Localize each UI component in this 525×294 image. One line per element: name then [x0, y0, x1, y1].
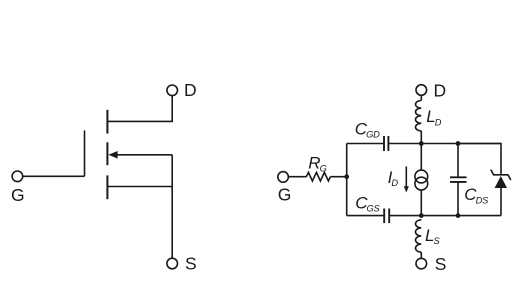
inductor LS [415, 220, 421, 252]
wire inductor LS to S [420, 252, 422, 258]
channel bar drain segment [106, 110, 108, 134]
svg-text:G: G [278, 185, 292, 205]
svg-text:S: S [435, 254, 447, 274]
svg-text:S: S [185, 254, 197, 274]
node source bottom [419, 213, 424, 218]
wire current source to source node [420, 190, 422, 216]
terminal G circle (model) [278, 172, 289, 183]
MOSFET Q1 source terminal circle [167, 258, 178, 269]
resistor RG [306, 172, 330, 181]
wire gate lead [22, 175, 84, 177]
svg-text:G: G [11, 185, 25, 205]
wire top rail right [389, 143, 501, 145]
terminal S circle (model) [416, 258, 427, 269]
wire drain node to current source [420, 144, 422, 171]
wire top rail left [347, 143, 384, 145]
wire CDS top [457, 144, 459, 178]
capacitor CDS [450, 176, 467, 178]
MOSFET Q1 drain terminal circle [167, 85, 178, 96]
zener diode body [495, 176, 507, 188]
wire drain [107, 95, 172, 121]
body arrow [117, 154, 172, 156]
MOSFET Q1 gate terminal circle [12, 171, 23, 182]
wire right branch top [458, 144, 501, 175]
wire D to inductor [420, 95, 422, 100]
channel bar body segment [106, 142, 108, 165]
node gate [344, 174, 349, 179]
wire bottom rail right [389, 215, 501, 217]
wire CDS bottom [457, 182, 459, 216]
node drain top [419, 141, 424, 146]
wire body to source [171, 155, 173, 258]
inductor LD [415, 101, 421, 131]
wire resistor to gate node [330, 176, 346, 178]
channel bar source segment [106, 175, 108, 199]
svg-text:D: D [184, 80, 197, 100]
wire gate branch vertical [346, 144, 348, 216]
wire source [107, 186, 172, 188]
wire bottom rail left [347, 215, 385, 217]
wire inductor to drain node [420, 131, 422, 144]
wire G to resistor [288, 176, 307, 178]
arrow ID direction [405, 167, 407, 187]
wire right branch bottom [500, 188, 502, 216]
capacitor CGS [383, 209, 385, 224]
gate electrode [84, 130, 86, 176]
current source ID [415, 170, 428, 183]
node bottom CDS [456, 213, 461, 218]
terminal D circle (model) [416, 85, 427, 96]
svg-text:D: D [434, 81, 447, 101]
capacitor CGD [383, 136, 385, 151]
zener diode cathode bar [491, 170, 511, 180]
node top CDS [456, 141, 461, 146]
